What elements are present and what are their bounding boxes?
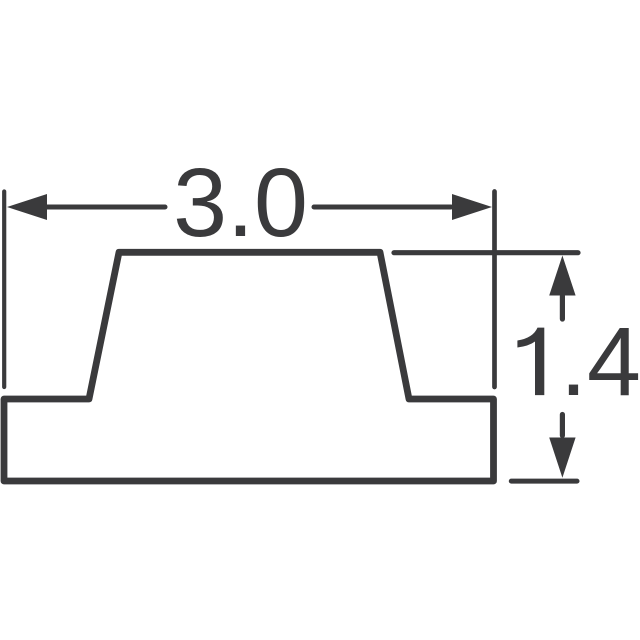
svg-text:3.0: 3.0 bbox=[173, 148, 308, 257]
svg-text:1.4: 1.4 bbox=[506, 307, 640, 416]
